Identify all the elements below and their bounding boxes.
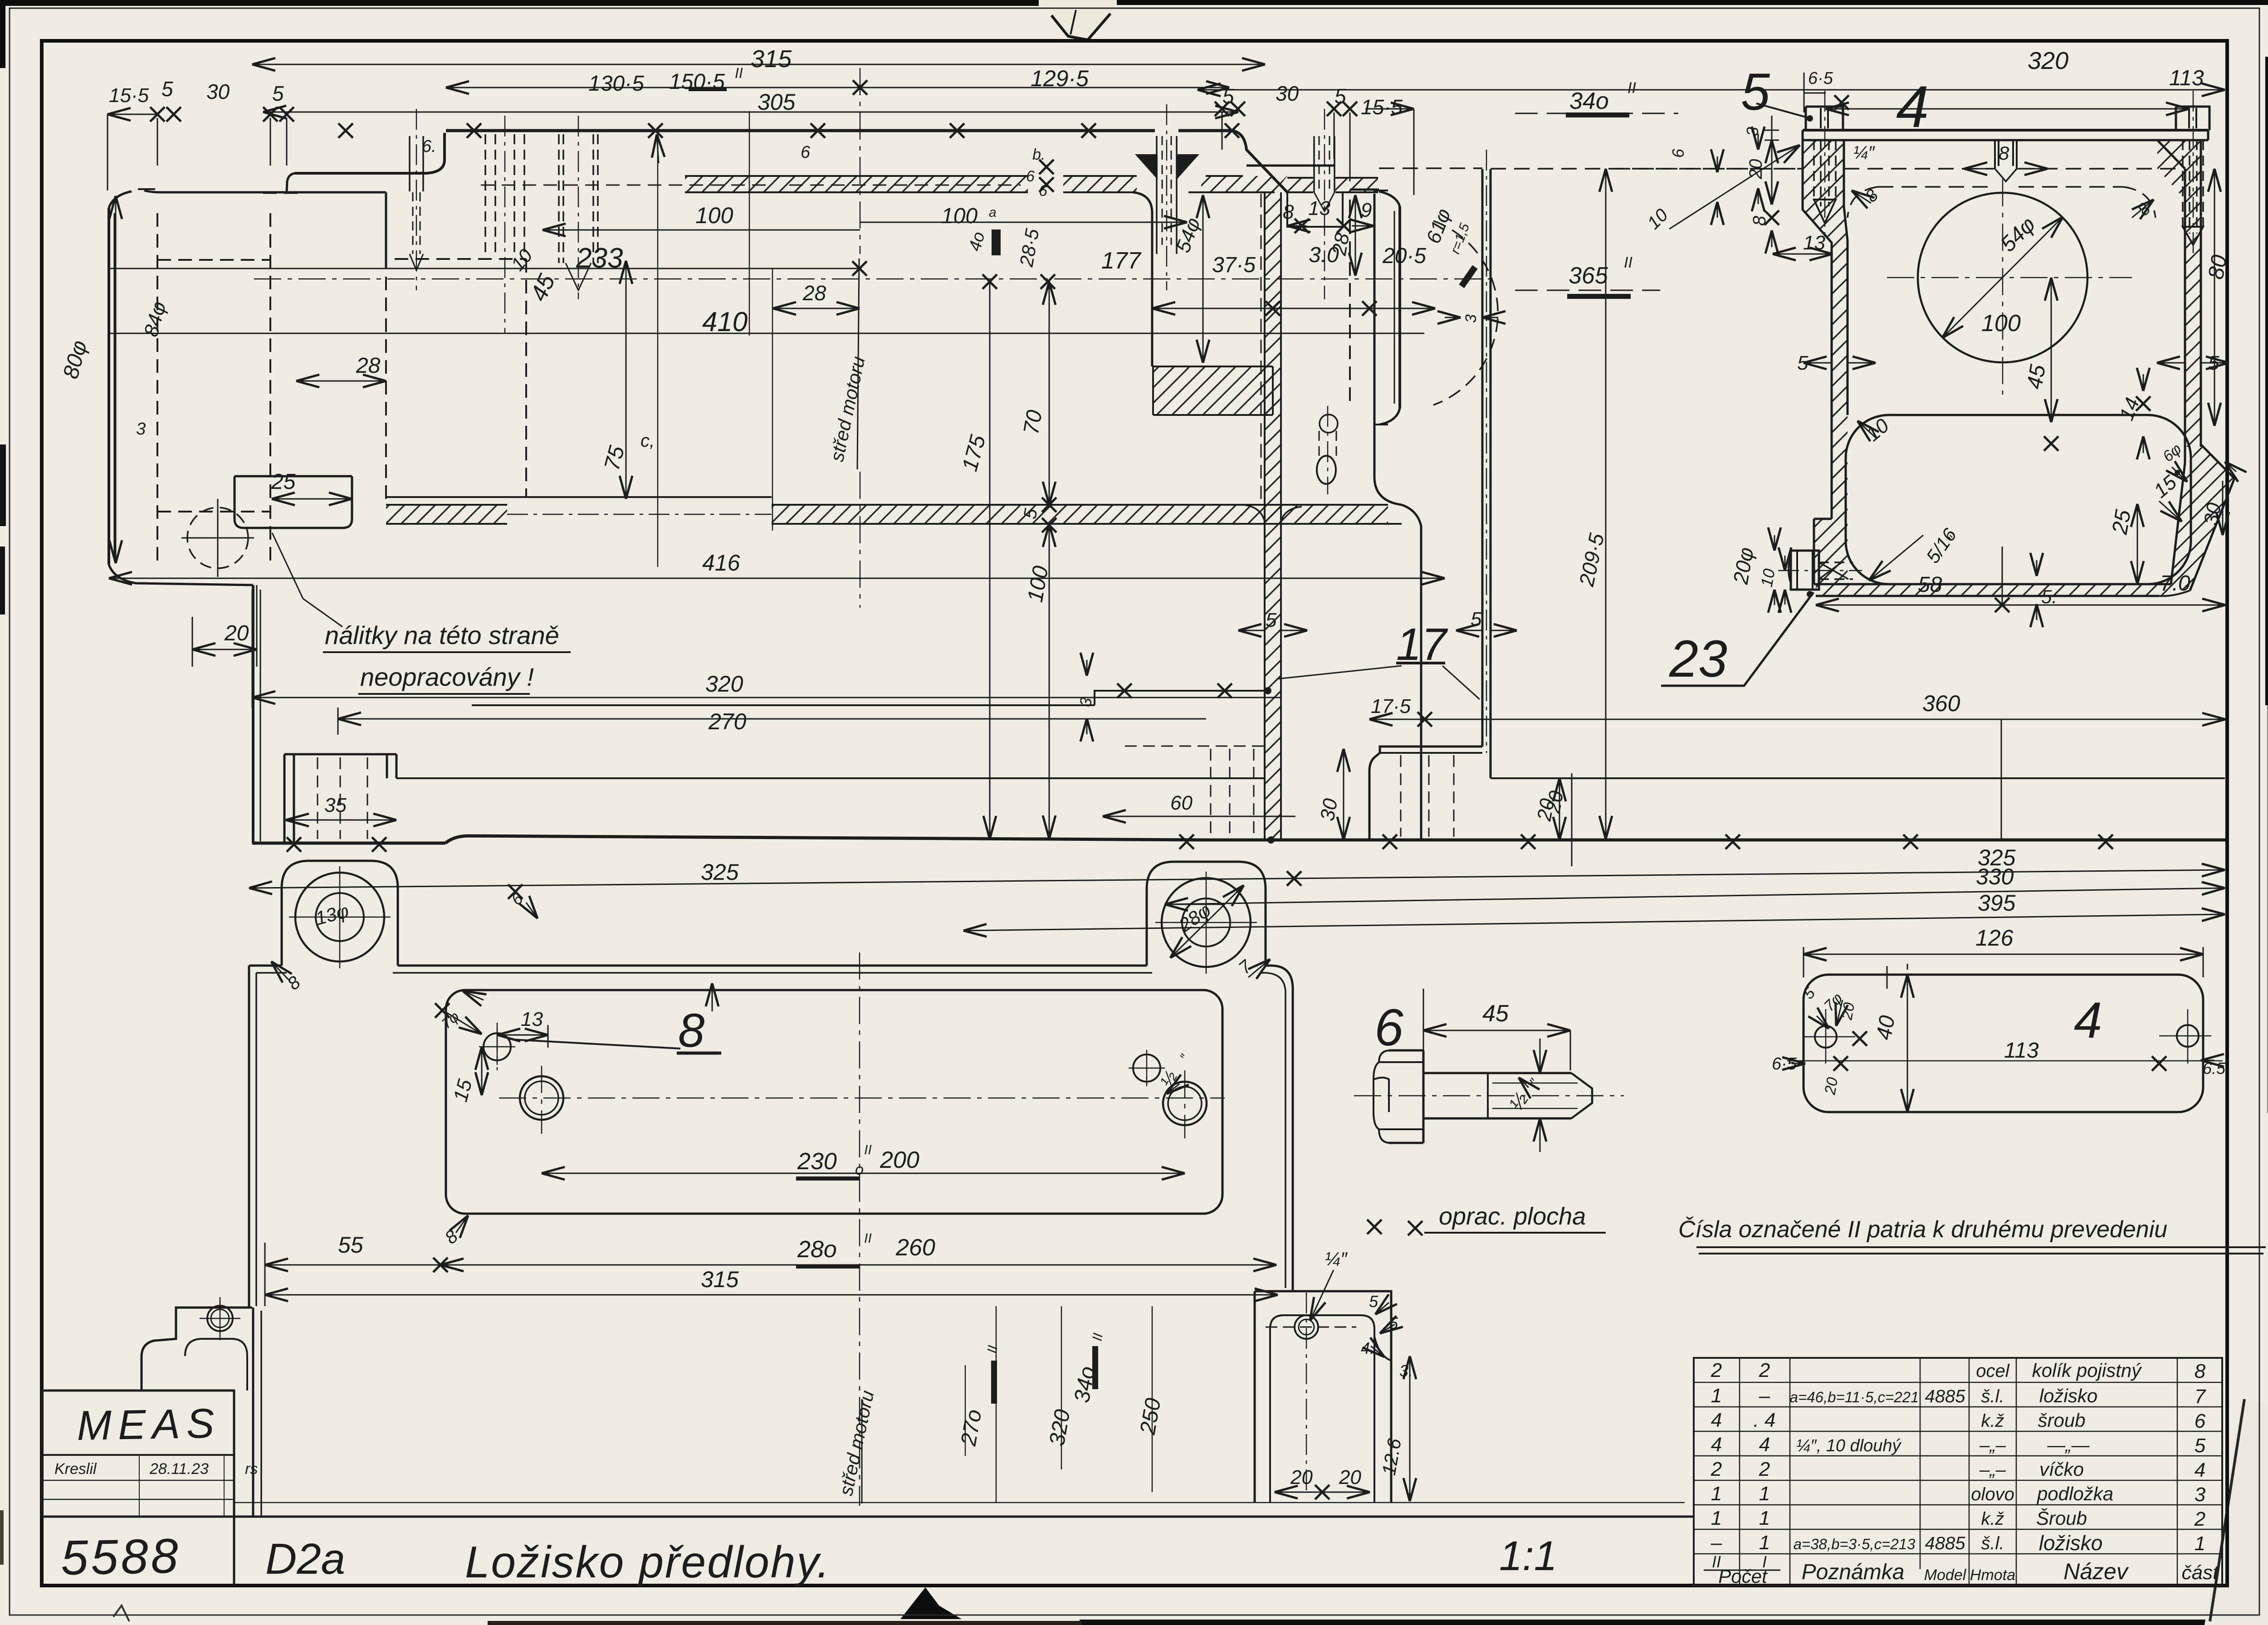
left wall outline xyxy=(1803,140,1848,519)
cavity dashed ceiling xyxy=(1878,186,2123,188)
chamber floor hatched band right xyxy=(772,505,1388,524)
svg-text:8: 8 xyxy=(2195,1360,2206,1382)
svg-text:45: 45 xyxy=(1482,1000,1509,1027)
svg-text:š.l.: š.l. xyxy=(1981,1386,2004,1406)
bolt tip chamfer xyxy=(1571,1073,1592,1118)
svg-text:230: 230 xyxy=(797,1148,837,1175)
svg-text:8: 8 xyxy=(678,1004,704,1057)
dim 6 left xyxy=(1717,156,1718,172)
right tab xyxy=(1147,862,1266,966)
PLANVIEW dims xyxy=(249,884,1278,1306)
svg-text:4: 4 xyxy=(1711,1409,1722,1431)
RIGHTVIEW xyxy=(1615,91,2234,596)
tapped hole mid xyxy=(559,134,598,263)
small 6 arrow xyxy=(526,903,538,918)
svg-text:3: 3 xyxy=(2195,1483,2206,1506)
left tab outer circle xyxy=(295,873,384,961)
dim 15 arrow xyxy=(2159,501,2182,522)
BOLT6 xyxy=(1354,1050,1624,1143)
note nalitky leader xyxy=(272,533,342,627)
svg-text:23: 23 xyxy=(1669,630,1727,688)
horizontal axis dash-dot xyxy=(254,278,1492,280)
R10 arrow top left wall xyxy=(1669,145,1800,229)
top right chain dims xyxy=(1215,102,1229,116)
cover plate bottom / housing face xyxy=(1803,130,2208,140)
svg-text:ocel: ocel xyxy=(1976,1361,2009,1381)
bolt axis xyxy=(1354,1095,1624,1097)
svg-text:a=46,b=11·5,c=221: a=46,b=11·5,c=221 xyxy=(1790,1389,1919,1405)
right edge curve of pedestal xyxy=(1374,1337,1391,1361)
svg-text:¼″: ¼″ xyxy=(1853,143,1875,163)
svg-text:4885: 4885 xyxy=(1925,1533,1966,1553)
dim 30 right arrow xyxy=(2222,481,2224,535)
dim 14 xyxy=(2143,374,2144,391)
svg-text:20: 20 xyxy=(1290,1466,1313,1488)
svg-text:2: 2 xyxy=(1711,1359,1722,1381)
radius 8 arrow pocket xyxy=(456,1215,468,1233)
svg-text:o: o xyxy=(855,1161,864,1178)
svg-text:5588: 5588 xyxy=(60,1528,181,1585)
left wall hatched xyxy=(1803,140,1848,584)
upper base shelf line left xyxy=(396,777,1265,779)
svg-text:260: 260 xyxy=(895,1235,935,1261)
right tab inner circle xyxy=(1182,898,1230,947)
svg-text:28: 28 xyxy=(356,354,381,378)
pin hole left xyxy=(484,1033,511,1060)
mid-right pedestal block xyxy=(1255,1291,1391,1503)
svg-text:80: 80 xyxy=(2204,253,2232,281)
boss top tick xyxy=(138,188,155,190)
dim 330 long xyxy=(1165,888,2225,904)
svg-text:5: 5 xyxy=(272,82,284,105)
dim 70 vertical xyxy=(1049,282,1050,505)
bolt shank xyxy=(1423,1073,1571,1118)
dim 233 xyxy=(110,268,860,269)
left pedestal circle xyxy=(207,1306,233,1331)
dim 60 xyxy=(1103,816,1295,817)
pedestal part17 xyxy=(1369,747,1491,840)
dim 20 pedestal xyxy=(1559,778,1560,840)
top left chain dims xyxy=(108,114,157,115)
svg-text:2: 2 xyxy=(1759,1359,1770,1381)
svg-text:70: 70 xyxy=(1019,408,1047,436)
svg-text:5: 5 xyxy=(1222,84,1234,108)
svg-text:4: 4 xyxy=(2074,992,2102,1049)
svg-text:129·5: 129·5 xyxy=(1031,66,1089,91)
svg-text:c,: c, xyxy=(640,431,655,451)
svg-text:395: 395 xyxy=(1978,890,2016,916)
svg-text:5: 5 xyxy=(1471,608,1482,630)
svg-text:30: 30 xyxy=(206,80,230,103)
dim 6 dia arrow xyxy=(2172,467,2187,482)
svg-text:b.: b. xyxy=(1032,146,1045,163)
extension verticals for 320/270 xyxy=(252,590,338,735)
left bottom diagonal pencil mark xyxy=(113,1605,129,1621)
dim 58 / 70 bottom xyxy=(1816,605,2225,606)
svg-text:5.: 5. xyxy=(2041,586,2057,607)
dim 130.5/129.5 row xyxy=(446,87,860,88)
part 17 wall double vertical xyxy=(1482,169,1491,747)
dim 325 long xyxy=(249,870,2225,888)
RIGHTVIEW texts xyxy=(1542,47,2232,866)
dim 15 xyxy=(481,1047,483,1095)
svg-text:4.: 4. xyxy=(1361,1339,1374,1357)
main view left pedestal xyxy=(284,754,396,843)
thread core lines xyxy=(1492,1083,1578,1108)
svg-text:40: 40 xyxy=(1872,1014,1900,1042)
svg-text:1: 1 xyxy=(1759,1483,1770,1505)
countersink triangle right xyxy=(1177,154,1199,180)
svg-text:5: 5 xyxy=(161,77,173,101)
svg-text:28: 28 xyxy=(1328,231,1354,258)
pin hole right xyxy=(1133,1054,1160,1082)
svg-text:ložisko: ložisko xyxy=(2039,1531,2103,1555)
plate hole left xyxy=(1815,1026,1837,1048)
dim 37.5 / 30 / 20.5 row xyxy=(1152,308,1273,309)
svg-text:¼″, 10 dlouhý: ¼″, 10 dlouhý xyxy=(1796,1436,1901,1455)
table row lines xyxy=(1694,1382,2222,1554)
dim 3 tick right xyxy=(1445,317,1461,318)
svg-text:177: 177 xyxy=(1101,248,1142,274)
dim 260 / 280 xyxy=(440,1264,1276,1266)
svg-text:5: 5 xyxy=(1741,63,1770,121)
dim 54 dia vertical xyxy=(1202,195,1204,363)
right bore dashed xyxy=(1349,200,1351,408)
svg-text:130·5: 130·5 xyxy=(588,72,644,96)
svg-text:6·5: 6·5 xyxy=(1772,1054,1797,1074)
dim 315 top row xyxy=(252,64,1265,65)
dim 8 xyxy=(1771,188,1773,205)
dim 6 under 340 xyxy=(1758,134,1759,150)
right boss flares xyxy=(1379,191,1400,425)
right boss ledge ticks xyxy=(1374,190,1388,425)
svg-text:4885: 4885 xyxy=(1925,1386,1966,1406)
svg-text:5: 5 xyxy=(1797,352,1809,374)
pin arrows xyxy=(445,1011,482,1034)
bottom black wedge mark xyxy=(900,1587,962,1619)
svg-text:k.ž: k.ž xyxy=(1981,1509,2004,1529)
wall-floor fillets xyxy=(1243,505,1302,522)
dim 25 pocket xyxy=(272,498,352,500)
svg-text:neopracovány !: neopracovány ! xyxy=(360,663,534,691)
dim 416 xyxy=(109,578,1445,579)
svg-text:II: II xyxy=(1624,254,1633,271)
big bore circle 54 xyxy=(1918,193,2087,362)
PLATE4 xyxy=(1787,975,2223,1112)
hidden dashed line under left region xyxy=(263,185,1021,193)
svg-text:3: 3 xyxy=(1462,314,1480,323)
svg-text:410: 410 xyxy=(702,307,748,337)
svg-text:rs: rs xyxy=(245,1460,258,1478)
svg-text:6: 6 xyxy=(1669,148,1687,158)
svg-text:Čísla označené II patria k dru: Čísla označené II patria k druhému preve… xyxy=(1678,1216,2167,1243)
svg-text:3: 3 xyxy=(1743,127,1762,136)
left screw part5 head xyxy=(1806,107,1843,130)
svg-text:15·5: 15·5 xyxy=(109,84,149,107)
flange hidden dashed line xyxy=(1615,168,2176,170)
dashed circle 20 dia in boss foot xyxy=(187,508,248,568)
dim 10 bolt xyxy=(1784,556,1786,571)
X marks on step line xyxy=(1117,683,1132,698)
340 II mark dashes xyxy=(1515,113,1678,290)
right boss face double line xyxy=(1398,206,1401,408)
dim 305 row xyxy=(263,112,1238,113)
small radius arrows xyxy=(1375,1303,1389,1314)
MAINVIEW texts xyxy=(59,45,2015,916)
svg-text:3: 3 xyxy=(136,420,146,439)
outer profile right of floor xyxy=(1402,505,1421,839)
bolt hole left double xyxy=(520,1076,563,1120)
svg-text:320: 320 xyxy=(2028,47,2068,74)
lower hatched block xyxy=(1153,366,1273,415)
svg-text:20: 20 xyxy=(1542,789,1568,815)
svg-text:35: 35 xyxy=(324,794,347,816)
dim 35 pedestal xyxy=(286,820,396,821)
dim 28 vertical right small xyxy=(1355,195,1356,276)
hidden hole line in floor xyxy=(507,514,772,515)
extension verticals left xyxy=(249,1215,265,1306)
svg-text:20·5: 20·5 xyxy=(1382,244,1426,268)
dashed 61 dia boss arc xyxy=(1433,221,1498,405)
svg-text:2: 2 xyxy=(1759,1458,1770,1480)
construction verticals xyxy=(658,111,772,567)
top wall band boundary lines xyxy=(685,176,1378,178)
svg-text:1: 1 xyxy=(1759,1532,1770,1554)
dim 113 top xyxy=(1826,108,2189,110)
svg-text:6.: 6. xyxy=(422,137,436,156)
machined step lines xyxy=(472,691,1268,705)
hidden pedestal left of wall xyxy=(1125,746,1265,837)
NOTES xyxy=(272,533,2266,1254)
svg-text:20: 20 xyxy=(224,621,249,645)
plan body top edge inner xyxy=(256,973,1286,1288)
svg-text:20: 20 xyxy=(1821,1076,1841,1096)
left scan edge dark blobs xyxy=(0,444,6,526)
svg-text:6: 6 xyxy=(2195,1410,2206,1432)
23 label leader xyxy=(1661,592,1813,686)
svg-text:28.11.23: 28.11.23 xyxy=(149,1460,209,1478)
right diagonal foot hatched xyxy=(2171,444,2234,590)
cover plate part4 top line xyxy=(1803,129,2208,132)
svg-text:5: 5 xyxy=(2195,1435,2206,1457)
dim 8 13 9 small row xyxy=(1287,225,1306,227)
right tapped hole xyxy=(1314,136,1334,192)
vertical mid wall hatched xyxy=(1265,192,1281,840)
plan body top edge outer xyxy=(249,966,1293,1291)
svg-text:28o: 28o xyxy=(797,1236,837,1263)
strike line under Pocet II I xyxy=(1704,1570,1780,1571)
label 8 leader xyxy=(513,1039,680,1049)
svg-text:nálitky na této straně: nálitky na této straně xyxy=(325,621,559,649)
svg-text:4: 4 xyxy=(1896,73,1929,140)
torn corner top centre xyxy=(1039,0,1117,40)
svg-text:část: část xyxy=(2182,1562,2219,1584)
svg-text:II: II xyxy=(864,1142,872,1157)
svg-text:365: 365 xyxy=(1569,263,1608,289)
part top machined face xyxy=(446,129,1232,132)
dim half inch bolt xyxy=(1540,1039,1541,1073)
dim 5 floor xyxy=(2036,560,2038,576)
svg-text:6: 6 xyxy=(1026,168,1035,185)
svg-text:II: II xyxy=(1628,79,1636,97)
right screw shank dashed xyxy=(2183,140,2203,234)
dim 75 vertical xyxy=(626,261,627,499)
dim 12.6 xyxy=(1409,1356,1411,1501)
dim 315 plan xyxy=(265,1294,1278,1296)
MAINVIEW xyxy=(109,68,2225,843)
arrow up mid bottom edge xyxy=(712,983,713,1011)
dim 20 dia bolt xyxy=(1774,535,1775,551)
dim 25 slot xyxy=(2137,504,2138,584)
dims 5 walls xyxy=(1238,630,1265,631)
PLANVIEW xyxy=(249,861,1293,1506)
svg-text:ložisko: ložisko xyxy=(2039,1385,2097,1406)
dim 20 under boss xyxy=(192,649,257,650)
svg-text:Model: Model xyxy=(1924,1566,1967,1584)
svg-text:II: II xyxy=(864,1231,872,1246)
parts table outer box xyxy=(1694,1358,2222,1586)
svg-text:4: 4 xyxy=(1759,1434,1770,1456)
svg-text:20: 20 xyxy=(1838,1001,1858,1021)
svg-text:1: 1 xyxy=(1711,1483,1722,1505)
svg-text:6.5: 6.5 xyxy=(2203,1059,2226,1078)
centre screw on main view xyxy=(1157,136,1177,254)
svg-text:7: 7 xyxy=(2195,1386,2206,1408)
svg-text:š.l.: š.l. xyxy=(1981,1533,2004,1553)
plan body left edge xyxy=(248,966,250,1308)
dim 175 vertical xyxy=(989,282,991,839)
centre line solid segment with text xyxy=(857,259,859,469)
svg-text:Hmota: Hmota xyxy=(1970,1566,2015,1584)
svg-text:315: 315 xyxy=(751,45,792,73)
svg-text:¼″: ¼″ xyxy=(1325,1248,1348,1269)
top scan edge black bar right part xyxy=(1117,0,2268,5)
plan centre motor text underline xyxy=(861,1399,863,1503)
cavity dashed lines left chamber xyxy=(395,259,526,497)
half inch arrow right xyxy=(1167,1084,1179,1094)
R10 slot arrow xyxy=(1857,421,1876,438)
chamber floor top edge line xyxy=(386,496,772,498)
dim 28 boss wall xyxy=(296,381,386,382)
right scan edge dark strip xyxy=(2265,57,2268,705)
svg-text:–: – xyxy=(1759,1385,1770,1407)
svg-text:2: 2 xyxy=(1711,1458,1722,1480)
mid-right pedestal inner rect xyxy=(1270,1315,1374,1503)
circle diagonal dimension xyxy=(1942,217,2063,338)
PLANVIEW texts xyxy=(284,888,1256,1292)
svg-text:kolík pojistný: kolík pojistný xyxy=(2032,1360,2142,1381)
dim 80 dia vertical xyxy=(115,196,117,563)
left notch face xyxy=(295,133,445,173)
RIGHTVIEW dims xyxy=(1198,73,2236,686)
right screw head xyxy=(2176,107,2209,130)
dim 30 pedestal xyxy=(1343,749,1344,840)
svg-text:6: 6 xyxy=(1039,182,1047,200)
svg-text:270: 270 xyxy=(708,709,747,734)
inner wall vertical at boss right xyxy=(385,192,387,268)
dim 320 row xyxy=(252,697,1281,698)
svg-text:6: 6 xyxy=(801,143,811,162)
PEDESTALS xyxy=(142,1291,1391,1517)
bolt hex head xyxy=(1389,1050,1423,1143)
right notch face xyxy=(1246,166,1379,190)
svg-text:60: 60 xyxy=(1170,792,1193,814)
svg-text:a: a xyxy=(989,205,997,220)
dim 13 pin xyxy=(497,1035,548,1036)
dim 3 cover thickness xyxy=(1765,116,1779,150)
svg-text:13: 13 xyxy=(1803,232,1825,254)
left screw shank dashed xyxy=(1814,140,1836,206)
base line main thick xyxy=(445,836,2225,843)
countersink triangle left xyxy=(1135,154,1158,180)
svg-text:416: 416 xyxy=(702,550,740,576)
dim 209.5 vertical xyxy=(1605,169,1607,839)
radius 8 arrow top left xyxy=(271,961,289,981)
label 5 leader xyxy=(1756,103,1809,118)
plate centre line xyxy=(1787,1060,2223,1062)
dim 395 long xyxy=(963,914,2225,931)
title strip divider xyxy=(233,1517,235,1586)
svg-text:víčko: víčko xyxy=(2039,1459,2084,1480)
top right small arrow xyxy=(2225,462,2236,472)
hidden dashed edge near wall xyxy=(1261,194,1262,499)
right flange under notch xyxy=(1287,192,1343,227)
bottom slot rounded xyxy=(1846,415,2191,584)
svg-text:8: 8 xyxy=(1283,201,1294,223)
svg-text:Šroub: Šroub xyxy=(2036,1508,2087,1529)
chamber floor hatched band left xyxy=(386,505,507,524)
TABLE xyxy=(1694,1358,2222,1586)
right tab outer circle xyxy=(1162,878,1251,967)
dim 20 20 pedestal xyxy=(1275,1492,1370,1493)
svg-text:podložka: podložka xyxy=(2036,1483,2113,1504)
svg-text:126: 126 xyxy=(1975,925,2014,951)
svg-text:7.0: 7.0 xyxy=(2160,571,2190,595)
left scan edge dark strip top xyxy=(0,0,5,68)
X floor marks xyxy=(1042,498,1056,512)
svg-text:5: 5 xyxy=(1389,1314,1398,1332)
svg-text:D2a: D2a xyxy=(265,1535,345,1583)
svg-text:šroub: šroub xyxy=(2038,1410,2085,1431)
chamber pocket left wall xyxy=(1133,192,1152,366)
X marks on top face xyxy=(338,123,353,138)
left body edge double line below boss xyxy=(252,585,254,843)
pocket rounded rectangle xyxy=(446,990,1222,1214)
centre dash-dot lines plan xyxy=(497,952,1225,1506)
svg-text:315: 315 xyxy=(701,1267,739,1292)
dim 100 vertical right xyxy=(1049,524,1050,839)
svg-text:—„—: —„— xyxy=(2047,1435,2090,1455)
svg-text:100: 100 xyxy=(941,204,978,228)
svg-text:olovo: olovo xyxy=(1971,1484,2014,1504)
svg-text:45: 45 xyxy=(2023,363,2051,391)
right notch fillet and chamfer xyxy=(1232,131,1287,192)
svg-text:4: 4 xyxy=(1711,1434,1722,1456)
svg-text:233: 233 xyxy=(576,243,623,274)
svg-text:100: 100 xyxy=(1981,310,2021,337)
svg-text:15·5: 15·5 xyxy=(1361,95,1403,119)
radius 7 arrow top right xyxy=(1248,959,1270,977)
table column lines xyxy=(1740,1358,2177,1586)
X marks on base xyxy=(287,837,301,852)
svg-text:37·5: 37·5 xyxy=(1212,253,1256,277)
dim 5 left wall xyxy=(1804,362,1832,364)
tapped hole top centre xyxy=(1995,140,2017,169)
svg-text:5: 5 xyxy=(1369,1292,1378,1311)
svg-text:–„–: –„– xyxy=(1979,1460,2006,1480)
base line left thick xyxy=(252,842,445,845)
svg-text:Ložisko předlohy.: Ložisko předlohy. xyxy=(465,1537,831,1587)
